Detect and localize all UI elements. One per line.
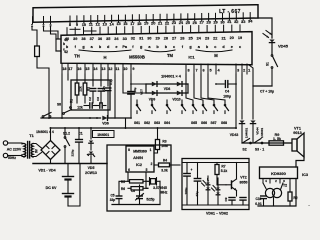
- svg-text:8: 8: [69, 22, 72, 27]
- svg-text:1: 1: [150, 148, 152, 152]
- svg-text:b: b: [99, 45, 102, 49]
- svg-text:R7: R7: [221, 165, 225, 169]
- wire pin14: [92, 74, 94, 86]
- svg-text:4: 4: [218, 69, 221, 73]
- diode VD8: [177, 82, 182, 87]
- svg-text:VD7: VD7: [140, 89, 144, 95]
- svg-text:1: 1: [248, 69, 250, 73]
- switch S63: [166, 104, 168, 106]
- svg-text:9: 9: [76, 22, 79, 27]
- capacitor C1: [78, 127, 80, 129]
- wire pin16: [76, 74, 78, 83]
- svg-text:b: b: [165, 45, 168, 49]
- wire speaker loop: [296, 151, 304, 167]
- wire bridge minus to gnd bus: [50, 160, 52, 164]
- resistor R7: [216, 163, 218, 165]
- switch S3-1: [255, 139, 262, 143]
- svg-text:16: 16: [123, 21, 128, 26]
- svg-text:Pa: Pa: [122, 45, 128, 49]
- wire pin 16b to left switches: [136, 100, 138, 104]
- svg-text:2: 2: [151, 162, 153, 166]
- wire bus118 to bus128: [125, 118, 127, 128]
- capacitor C14: [197, 163, 199, 179]
- capacitor C5: [118, 183, 120, 196]
- trimmer C6: [139, 185, 141, 196]
- svg-text:b: b: [63, 42, 65, 46]
- svg-text:5: 5: [146, 168, 148, 172]
- svg-text:VD61 ~ VD62: VD61 ~ VD62: [206, 212, 228, 216]
- svg-text:c: c: [173, 45, 175, 49]
- capacitor C12 10u: [130, 83, 132, 85]
- wire display pin 1 down: [32, 27, 37, 46]
- capacitor C15: [242, 163, 244, 197]
- svg-text:TH: TH: [74, 54, 80, 59]
- capacitor C2a horizontal: [84, 105, 89, 107]
- svg-text:T2: T2: [283, 184, 287, 188]
- svg-text:IC1: IC1: [188, 55, 195, 60]
- transformer T1 secondary: [31, 144, 33, 157]
- svg-text:27: 27: [200, 20, 204, 25]
- svg-text:30: 30: [147, 37, 151, 41]
- bus +V y128: [51, 127, 237, 129]
- svg-text:32: 32: [234, 19, 239, 24]
- svg-text:2CW13: 2CW13: [85, 171, 97, 175]
- wire base R7: [216, 178, 218, 185]
- svg-text:26: 26: [180, 37, 184, 41]
- bus wire y118: [41, 117, 101, 119]
- switch S1: [271, 55, 273, 57]
- diode VD9: [152, 91, 157, 96]
- svg-text:S62: S62: [144, 121, 150, 125]
- svg-text:13: 13: [103, 22, 108, 27]
- svg-text:5: 5: [210, 69, 212, 73]
- svg-text:S2: S2: [242, 148, 246, 152]
- svg-text:b: b: [66, 45, 69, 49]
- svg-text:S67: S67: [210, 121, 216, 125]
- svg-text:20: 20: [230, 36, 234, 40]
- svg-text:9: 9: [132, 67, 134, 71]
- wire bridge plus to bus: [50, 128, 52, 141]
- svg-text:MHz: MHz: [161, 191, 168, 195]
- svg-text:1N4001: 1N4001: [245, 128, 249, 139]
- battery DC 6V: [67, 164, 69, 177]
- resistor R3: [155, 140, 159, 150]
- resistor R9: [269, 141, 284, 145]
- svg-text:15: 15: [116, 21, 121, 26]
- svg-text:38: 38: [81, 37, 85, 41]
- svg-text:25: 25: [186, 20, 191, 25]
- svg-text:VD45: VD45: [278, 44, 289, 49]
- svg-text:g: g: [189, 45, 192, 49]
- svg-text:10: 10: [123, 67, 127, 71]
- svg-text:31: 31: [139, 37, 143, 41]
- svg-text:11: 11: [115, 67, 119, 71]
- resistor R10: [35, 46, 40, 57]
- svg-text:VD5: VD5: [88, 166, 95, 170]
- svg-text:C3: C3: [96, 97, 100, 101]
- svg-text:0.01: 0.01: [255, 202, 262, 206]
- resistor R4: [154, 164, 159, 166]
- svg-text:VT1: VT1: [294, 127, 301, 131]
- svg-text:C10: C10: [255, 197, 261, 201]
- switch S2: [241, 142, 243, 144]
- boxed label 1N4001: [93, 131, 115, 138]
- switch S1.2: [64, 127, 66, 129]
- svg-text:34: 34: [114, 37, 119, 41]
- svg-text:18: 18: [62, 67, 66, 71]
- svg-text:47µ: 47µ: [195, 191, 199, 196]
- crystal X1: [148, 180, 150, 182]
- svg-text:7: 7: [196, 69, 198, 73]
- LED VD62: [206, 188, 210, 190]
- svg-text:18: 18: [137, 21, 142, 26]
- svg-text:24: 24: [197, 36, 202, 40]
- svg-text:f: f: [75, 45, 77, 49]
- svg-text:VD6: VD6: [102, 122, 109, 126]
- svg-text:36: 36: [98, 37, 102, 41]
- svg-text:3.3k: 3.3k: [161, 168, 168, 172]
- svg-text:22: 22: [165, 20, 170, 25]
- svg-text:g: g: [140, 45, 143, 49]
- transistor VT2: [231, 181, 233, 189]
- capacitor C3a horizontal: [96, 105, 99, 107]
- diode group wires: [146, 83, 188, 85]
- svg-text:c: c: [239, 45, 241, 49]
- svg-text:e: e: [115, 45, 117, 49]
- svg-text:+: +: [191, 168, 193, 172]
- wire pin18 to bus: [61, 74, 63, 118]
- flasher module box: [182, 159, 249, 210]
- svg-text:S1.2: S1.2: [63, 132, 70, 136]
- svg-text:S65: S65: [191, 121, 197, 125]
- svg-text:C2: C2: [88, 97, 92, 101]
- svg-text:4: 4: [265, 179, 267, 183]
- svg-text:1N4001: 1N4001: [97, 133, 109, 137]
- switch S67: [213, 104, 215, 106]
- svg-text:28: 28: [206, 20, 211, 25]
- RC box: [71, 80, 110, 110]
- IC3 module bottom wire: [258, 179, 296, 207]
- wire IC2 pin5 down: [145, 172, 147, 176]
- svg-text:31: 31: [227, 19, 232, 24]
- svg-text:33: 33: [241, 19, 246, 24]
- svg-text:S8: S8: [57, 103, 61, 107]
- svg-text:IC3: IC3: [302, 173, 308, 177]
- wire AC to T1: [8, 142, 22, 144]
- LED VD63: [217, 178, 219, 187]
- svg-text:6: 6: [203, 69, 205, 73]
- svg-text:8: 8: [188, 69, 190, 73]
- svg-text:f: f: [132, 45, 134, 49]
- svg-text:C1: C1: [78, 132, 82, 136]
- svg-text:VD43: VD43: [230, 133, 239, 137]
- svg-text:37: 37: [90, 37, 94, 41]
- svg-text:14: 14: [93, 67, 98, 71]
- svg-text:22: 22: [213, 36, 217, 40]
- wire crystal node: [119, 181, 128, 183]
- bridge rectifier VD1-VD4: [41, 141, 60, 160]
- svg-text:19: 19: [238, 36, 242, 40]
- svg-text:33p: 33p: [110, 198, 116, 202]
- svg-text:H: H: [103, 55, 106, 60]
- svg-text:e: e: [231, 45, 233, 49]
- svg-text:M: M: [214, 53, 218, 58]
- wire T2: [263, 183, 267, 190]
- svg-text:KD9300: KD9300: [271, 171, 286, 176]
- transformer T2 coils: [265, 188, 274, 197]
- capacitor C10: [262, 193, 264, 196]
- svg-text:R1: R1: [70, 99, 74, 103]
- oscillator module box: [107, 145, 171, 211]
- switch S61: [136, 104, 138, 106]
- svg-text:35: 35: [106, 37, 110, 41]
- svg-text:R6: R6: [121, 187, 125, 191]
- svg-text:S68: S68: [221, 121, 227, 125]
- wire pin3 down to bus128: [235, 74, 237, 128]
- svg-text:27: 27: [172, 37, 176, 41]
- switch S64: [181, 104, 183, 106]
- svg-text:14: 14: [109, 21, 114, 26]
- LED VD61: [207, 176, 209, 182]
- svg-text:24: 24: [179, 20, 184, 25]
- svg-text:C4: C4: [225, 90, 229, 94]
- resistor R2: [83, 83, 87, 95]
- svg-text:3: 3: [283, 179, 285, 183]
- svg-text:20: 20: [151, 21, 155, 26]
- svg-text:M5550B: M5550B: [129, 55, 145, 60]
- svg-text:g: g: [82, 45, 85, 49]
- switch S68: [224, 104, 226, 106]
- transformer T1 core: [27, 142, 29, 159]
- wire display pin 2 to IC pin 41: [44, 27, 62, 39]
- svg-text:12: 12: [96, 22, 101, 27]
- svg-text:C6: C6: [131, 189, 135, 193]
- svg-text:1. 5k: 1. 5k: [273, 137, 281, 141]
- resistor R8: [289, 183, 291, 192]
- svg-text:S64: S64: [164, 121, 170, 125]
- svg-text:f: f: [182, 45, 184, 49]
- svg-text:S1: S1: [266, 62, 270, 66]
- wire pin10 to diode row2: [123, 74, 146, 93]
- svg-text:220µ: 220µ: [71, 149, 75, 156]
- svg-text:17: 17: [68, 67, 72, 71]
- diode VD11: [90, 127, 92, 129]
- svg-text:1N4001: 1N4001: [260, 128, 264, 139]
- svg-text:VT2: VT2: [240, 176, 247, 180]
- IC3 pin ticks: [262, 179, 264, 184]
- svg-text:MM5369: MM5369: [133, 150, 147, 154]
- wire pin11: [114, 74, 116, 118]
- svg-text:0.1µ: 0.1µ: [109, 79, 113, 85]
- capacitor C2: [90, 88, 96, 90]
- svg-text:T1: T1: [29, 134, 33, 138]
- wire R10 to switch S8 column: [37, 57, 49, 118]
- svg-text:23: 23: [205, 36, 209, 40]
- display LT-667: [33, 5, 258, 23]
- svg-text:5.1k: 5.1k: [221, 169, 228, 173]
- IC3 KD9300 box: [260, 167, 298, 179]
- wire display to VD45: [258, 18, 272, 38]
- svg-text:a: a: [148, 45, 151, 49]
- capacitor C9: [229, 197, 235, 199]
- switch S65: [192, 104, 194, 106]
- svg-text:25: 25: [188, 37, 192, 41]
- wire S2 S3 row: [242, 142, 293, 144]
- svg-text:R4: R4: [163, 159, 167, 163]
- svg-text:a: a: [91, 45, 94, 49]
- display pin comb: [33, 13, 251, 24]
- svg-text:TM: TM: [167, 53, 174, 58]
- svg-text:32: 32: [131, 37, 135, 41]
- svg-text:6: 6: [128, 168, 130, 172]
- svg-text:8050: 8050: [240, 181, 248, 185]
- wire VT2 collector: [236, 163, 238, 180]
- wires secondary to bridge: [33, 144, 42, 149]
- svg-text:C9: C9: [224, 197, 228, 201]
- LED VD45: [269, 40, 274, 43]
- svg-text:AC 220V: AC 220V: [7, 148, 22, 152]
- svg-text:DC 6V: DC 6V: [46, 186, 57, 190]
- pin 41: [56, 38, 61, 40]
- switch S66: [202, 104, 204, 106]
- svg-text:11: 11: [89, 22, 94, 27]
- capacitor C4: [215, 83, 217, 85]
- svg-text:R3: R3: [162, 140, 166, 144]
- svg-text:1N4001 × 4: 1N4001 × 4: [36, 130, 54, 134]
- svg-text:40: 40: [65, 37, 69, 41]
- wire pin15: [84, 74, 86, 83]
- diode VD10: [177, 91, 182, 96]
- svg-text:39: 39: [73, 37, 77, 41]
- wire pin1 down: [249, 65, 253, 86]
- diode VD7: [152, 82, 157, 87]
- svg-text:VD1 - VD4: VD1 - VD4: [38, 169, 55, 173]
- svg-text:VD44: VD44: [256, 127, 260, 135]
- op-amp U1 M5550B body: [61, 32, 252, 65]
- wires pins 8-4 to switches: [186, 74, 193, 104]
- svg-text:16: 16: [77, 67, 81, 71]
- svg-text:VD8: VD8: [164, 87, 171, 91]
- brace H group: [79, 50, 131, 52]
- wire IC2 pin6 down: [127, 172, 129, 181]
- comb display to IC: [67, 25, 240, 35]
- capacitor C3: [98, 88, 104, 90]
- osc internal gnd wire: [112, 204, 160, 206]
- svg-text:S66: S66: [201, 121, 207, 125]
- wire pin9 to diode row1: [131, 74, 146, 84]
- wire R9 to VT1: [284, 142, 293, 144]
- svg-text:IC2: IC2: [136, 163, 142, 167]
- capacitor C13 electrolytic: [186, 163, 188, 174]
- resistor R6: [128, 187, 131, 189]
- svg-text:26: 26: [193, 20, 198, 25]
- zener VD5: [89, 152, 93, 155]
- wire pin2 to VD43: [241, 74, 243, 119]
- svg-text:S3 · 1: S3 · 1: [255, 148, 264, 152]
- brace M group: [196, 50, 232, 52]
- svg-text:10µ: 10µ: [133, 87, 137, 92]
- svg-text:28: 28: [164, 37, 168, 41]
- svg-text:c: c: [214, 45, 216, 49]
- svg-text:10: 10: [82, 22, 86, 27]
- svg-text:5/25p: 5/25p: [146, 198, 154, 202]
- svg-text:50Hz: 50Hz: [8, 156, 16, 160]
- battery return wire: [68, 164, 80, 207]
- svg-text:AN/N: AN/N: [133, 155, 143, 160]
- svg-text:b: b: [206, 45, 209, 49]
- svg-text:b: b: [156, 45, 159, 49]
- wire pin12: [107, 74, 109, 86]
- diode VD6: [102, 116, 107, 121]
- svg-text:-: -: [308, 202, 310, 207]
- svg-text:34: 34: [248, 19, 253, 24]
- svg-text:8: 8: [128, 148, 130, 152]
- svg-text:30: 30: [220, 19, 224, 24]
- svg-text:19: 19: [144, 21, 149, 26]
- IC bottom pin ticks: [62, 64, 247, 74]
- diode VD43: [239, 121, 244, 124]
- svg-text:c: c: [63, 48, 65, 52]
- capacitor C11: [105, 87, 111, 89]
- svg-text:29: 29: [213, 19, 218, 24]
- wire node to S1 column: [253, 85, 272, 87]
- svg-text:33: 33: [123, 37, 127, 41]
- svg-text:1N4001 × 4: 1N4001 × 4: [161, 75, 182, 79]
- svg-text:12: 12: [108, 67, 112, 71]
- transformer T1 primary: [24, 144, 26, 157]
- switch S8: [63, 113, 65, 115]
- svg-text:S61: S61: [134, 121, 140, 125]
- VD45 light arrows: [263, 34, 269, 38]
- svg-text:3: 3: [237, 69, 239, 73]
- svg-text:d: d: [222, 45, 225, 49]
- svg-text:21: 21: [158, 20, 163, 25]
- flasher top rail: [183, 162, 248, 164]
- resistor R1: [75, 83, 79, 95]
- svg-text:VD10: VD10: [172, 98, 180, 102]
- svg-text:22k: 22k: [79, 86, 83, 92]
- svg-text:a: a: [198, 45, 201, 49]
- svg-text:13: 13: [101, 67, 105, 71]
- AC source terminal top: [3, 141, 7, 145]
- switch S4 on bus: [42, 116, 44, 118]
- wire pin17 to RC box: [67, 74, 69, 80]
- pin 42: [56, 50, 61, 52]
- svg-text:17: 17: [130, 21, 134, 26]
- flasher bottom rail: [183, 204, 248, 206]
- svg-text:10M: 10M: [161, 144, 168, 148]
- wire bus to R3: [157, 127, 159, 129]
- svg-text:15: 15: [85, 67, 89, 71]
- svg-text:9013: 9013: [293, 131, 301, 135]
- svg-text:2: 2: [275, 179, 277, 183]
- svg-text:d: d: [107, 45, 110, 49]
- resistor R5: [128, 180, 130, 182]
- LED VD64: [216, 193, 220, 195]
- wire pin13: [100, 74, 102, 86]
- svg-text:100µ: 100µ: [184, 187, 188, 194]
- svg-text:100µ: 100µ: [223, 95, 231, 99]
- svg-text:23: 23: [172, 20, 177, 25]
- svg-text:S63: S63: [154, 121, 160, 125]
- speaker VT1: [292, 139, 297, 151]
- IC2 MM5369 body: [126, 146, 154, 172]
- svg-text:C7 + 10µ: C7 + 10µ: [260, 90, 274, 94]
- LED arrows: [203, 181, 206, 184]
- wire S1 down: [271, 68, 273, 86]
- svg-text:2: 2: [243, 69, 245, 73]
- svg-text:12k: 12k: [77, 106, 83, 110]
